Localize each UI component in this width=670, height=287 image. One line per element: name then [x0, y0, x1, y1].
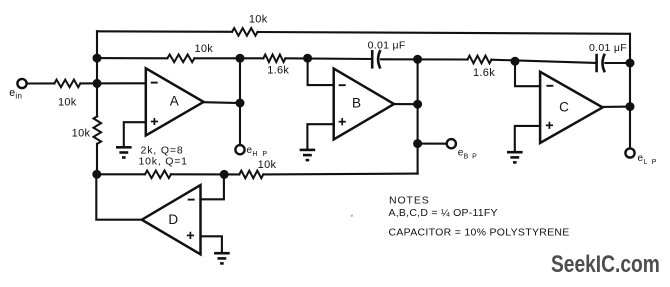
op-amp D body	[142, 185, 201, 254]
op-amp C body	[540, 72, 603, 143]
op-amp A body	[146, 68, 204, 135]
resistor R-IN 10k (input)	[54, 80, 80, 88]
wire D non-inverting input	[201, 236, 222, 253]
node C-in	[511, 57, 520, 66]
wire A non-inverting input	[124, 122, 146, 147]
svg-text:10k: 10k	[58, 97, 77, 109]
wire BP to terminal	[418, 143, 447, 145]
capacitor C2 0.01uF (integrator C feedback)	[595, 54, 598, 73]
node HP/row2	[236, 54, 245, 63]
resistor R-Q 2k/10k (Q set)	[145, 171, 171, 179]
svg-text:NOTES: NOTES	[389, 195, 430, 207]
node summing/bottom	[92, 170, 101, 179]
node HP/A-out	[236, 99, 245, 108]
resistor R-HP 10k (HP feedback to A input)	[167, 55, 194, 63]
terminal e_HP	[235, 145, 244, 154]
wire e_in to Rin	[27, 82, 55, 84]
wire Rin to A inverting input	[80, 82, 145, 84]
wire bottom row seg2	[171, 173, 239, 175]
ground C	[507, 151, 523, 154]
wire C inverting input	[515, 61, 540, 86]
scan speck (noise)	[351, 215, 353, 217]
svg-text:B: B	[352, 95, 361, 110]
resistor R-LP 10k (top feedback)	[232, 28, 257, 36]
svg-text:1.6k: 1.6k	[267, 65, 289, 77]
node B-in	[303, 54, 312, 63]
wire bottom right riser to BP node	[417, 144, 419, 174]
terminal e_BP	[447, 139, 456, 148]
terminal e_in	[17, 79, 26, 88]
wire top feedback line left segment	[97, 30, 232, 33]
op-amp B plus sign	[339, 121, 346, 123]
wire D output	[96, 174, 142, 219]
wire row2 seg5	[491, 60, 595, 63]
node C-in-cap	[626, 59, 635, 68]
svg-text:10k: 10k	[194, 43, 213, 55]
svg-text:0.01 μF: 0.01 μF	[368, 39, 406, 51]
svg-text:1.6k: 1.6k	[473, 67, 495, 79]
ground A	[116, 146, 132, 149]
op-amp D minus sign	[188, 199, 195, 201]
wire row2 seg2	[195, 57, 264, 59]
svg-text:10k: 10k	[72, 128, 91, 140]
wire bottom row seg1	[97, 173, 145, 175]
node B-out-top	[413, 55, 422, 64]
wire A output	[204, 101, 240, 104]
svg-text:A: A	[170, 94, 179, 109]
resistor R3 10k (BP to inverter D)	[239, 171, 263, 179]
wire row2 seg6	[605, 62, 630, 64]
wire top feedback line right segment	[258, 32, 630, 34]
wire B output	[394, 103, 418, 105]
svg-text:0.01 μF: 0.01 μF	[589, 42, 627, 54]
svg-text:10k: 10k	[249, 13, 268, 25]
node D-in	[220, 170, 229, 179]
wire row2 seg4	[381, 58, 468, 60]
wire C output	[603, 106, 630, 108]
node B-out	[413, 100, 422, 109]
ground B	[300, 149, 316, 152]
wire HP column	[239, 58, 241, 145]
op-amp C plus sign	[546, 124, 553, 126]
resistor R2 1.6k (B out to integrator C)	[468, 56, 492, 64]
wire bottom row seg3	[263, 173, 417, 176]
svg-text:CAPACITOR = 10% POLYSTYRENE: CAPACITOR = 10% POLYSTYRENE	[389, 226, 570, 238]
terminal e_LP	[625, 148, 634, 157]
capacitor C1 0.01uF (integrator B feedback)	[371, 50, 374, 69]
wire top right corner drop	[629, 34, 631, 63]
op-amp A plus sign	[151, 121, 158, 123]
wire B inverting input	[308, 58, 334, 85]
op-amp A minus sign	[151, 82, 158, 84]
op-amp D plus sign	[187, 234, 194, 236]
wire BP column	[417, 59, 419, 142]
wire LP column	[629, 63, 631, 148]
svg-text:SeekIC.com: SeekIC.com	[551, 250, 660, 278]
op-amp C minus sign	[546, 85, 553, 87]
wire B non-inverting input	[307, 124, 333, 149]
resistor R-D 10k (vertical, D output to summing node)	[94, 116, 102, 144]
svg-text:C: C	[559, 100, 569, 115]
wire row2 seg3	[285, 57, 370, 60]
wire D inverting input	[201, 174, 224, 199]
node summing/row2	[93, 54, 102, 63]
svg-text:10k: 10k	[258, 159, 277, 171]
node BP	[413, 139, 422, 148]
wire summing column lower	[96, 144, 98, 175]
node summing/e_in	[93, 79, 102, 88]
svg-text:D: D	[168, 212, 178, 227]
wire summing column x=97	[96, 31, 98, 116]
node LP/C-out	[626, 102, 635, 111]
op-amp B body	[334, 69, 394, 140]
wire C non-inverting input	[515, 126, 540, 152]
ground D	[214, 252, 230, 255]
resistor R1 1.6k (HP to integrator B)	[263, 55, 285, 63]
wire row2 seg1	[97, 57, 167, 59]
svg-text:10k, Q=1: 10k, Q=1	[139, 156, 188, 168]
op-amp B minus sign	[339, 84, 346, 86]
svg-text:A,B,C,D = ¼ OP-11FY: A,B,C,D = ¼ OP-11FY	[389, 207, 498, 219]
